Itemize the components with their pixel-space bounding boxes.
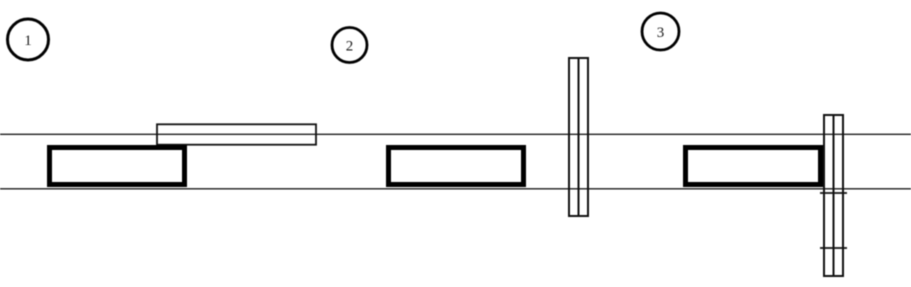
vertical double bar 1: center divider [578, 57, 580, 216]
node 2: thick rectangle 2 [389, 148, 524, 185]
wire: bottom horizontal line [0, 188, 911, 190]
label circle 3 [642, 13, 679, 50]
vertical double bar 2: lower crossbar [820, 247, 847, 249]
vertical double bar 1: outline [569, 58, 588, 216]
label circle 2 [332, 28, 367, 63]
label circle 1 [8, 19, 49, 60]
node: thin overlapping rectangle [157, 124, 316, 144]
vertical double bar 2: outline [824, 115, 843, 276]
vertical double bar 2: center divider [833, 114, 835, 276]
node 3: thick rectangle 3 [686, 148, 821, 185]
svg-text:2: 2 [346, 39, 354, 55]
svg-text:3: 3 [657, 25, 665, 41]
node 1: thick rectangle 1 [50, 148, 185, 185]
vertical double bar 2: upper crossbar [820, 192, 847, 194]
svg-text:1: 1 [24, 33, 32, 49]
wire: top horizontal line [0, 133, 911, 135]
